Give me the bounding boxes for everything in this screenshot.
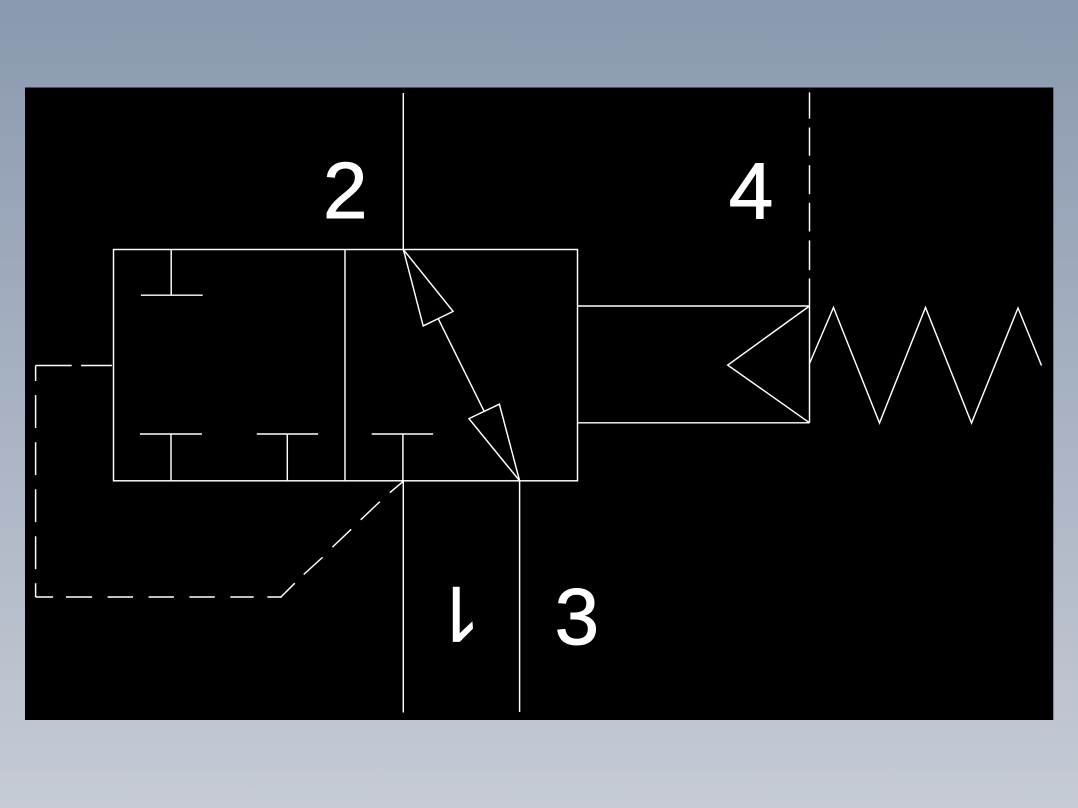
flow arrowhead lower	[469, 404, 520, 481]
label port 1 (rotated)	[453, 587, 473, 642]
svg-text:2: 2	[323, 146, 368, 235]
wire port 3	[519, 481, 521, 712]
pilot line to port (dashed, body to left)	[36, 365, 112, 367]
blocked port T (left cell bottom left)	[140, 434, 202, 481]
pilot actuator arrow	[728, 306, 810, 423]
pilot line bottom horizontal (dashed)	[36, 596, 282, 598]
drawing canvas (black model space)	[25, 88, 1053, 721]
wire port 2	[402, 93, 404, 250]
blocked port T (left cell bottom right)	[257, 434, 318, 481]
flow arrowhead upper	[403, 250, 453, 326]
svg-text:3: 3	[555, 572, 600, 661]
wire port 1	[402, 481, 404, 713]
position divider	[344, 250, 346, 481]
pilot line port 4 (dashed)	[809, 92, 811, 306]
blocked port T (right cell bottom)	[372, 434, 433, 481]
pilot line diagonal (dashed)	[281, 482, 403, 597]
blocked port T (left cell top)	[141, 250, 203, 296]
valve body	[114, 250, 578, 481]
pilot line vertical (dashed)	[35, 366, 37, 598]
svg-text:4: 4	[729, 146, 774, 235]
pilot actuator box	[578, 306, 810, 423]
flow arrow shaft	[438, 319, 484, 412]
spring	[810, 308, 1042, 424]
